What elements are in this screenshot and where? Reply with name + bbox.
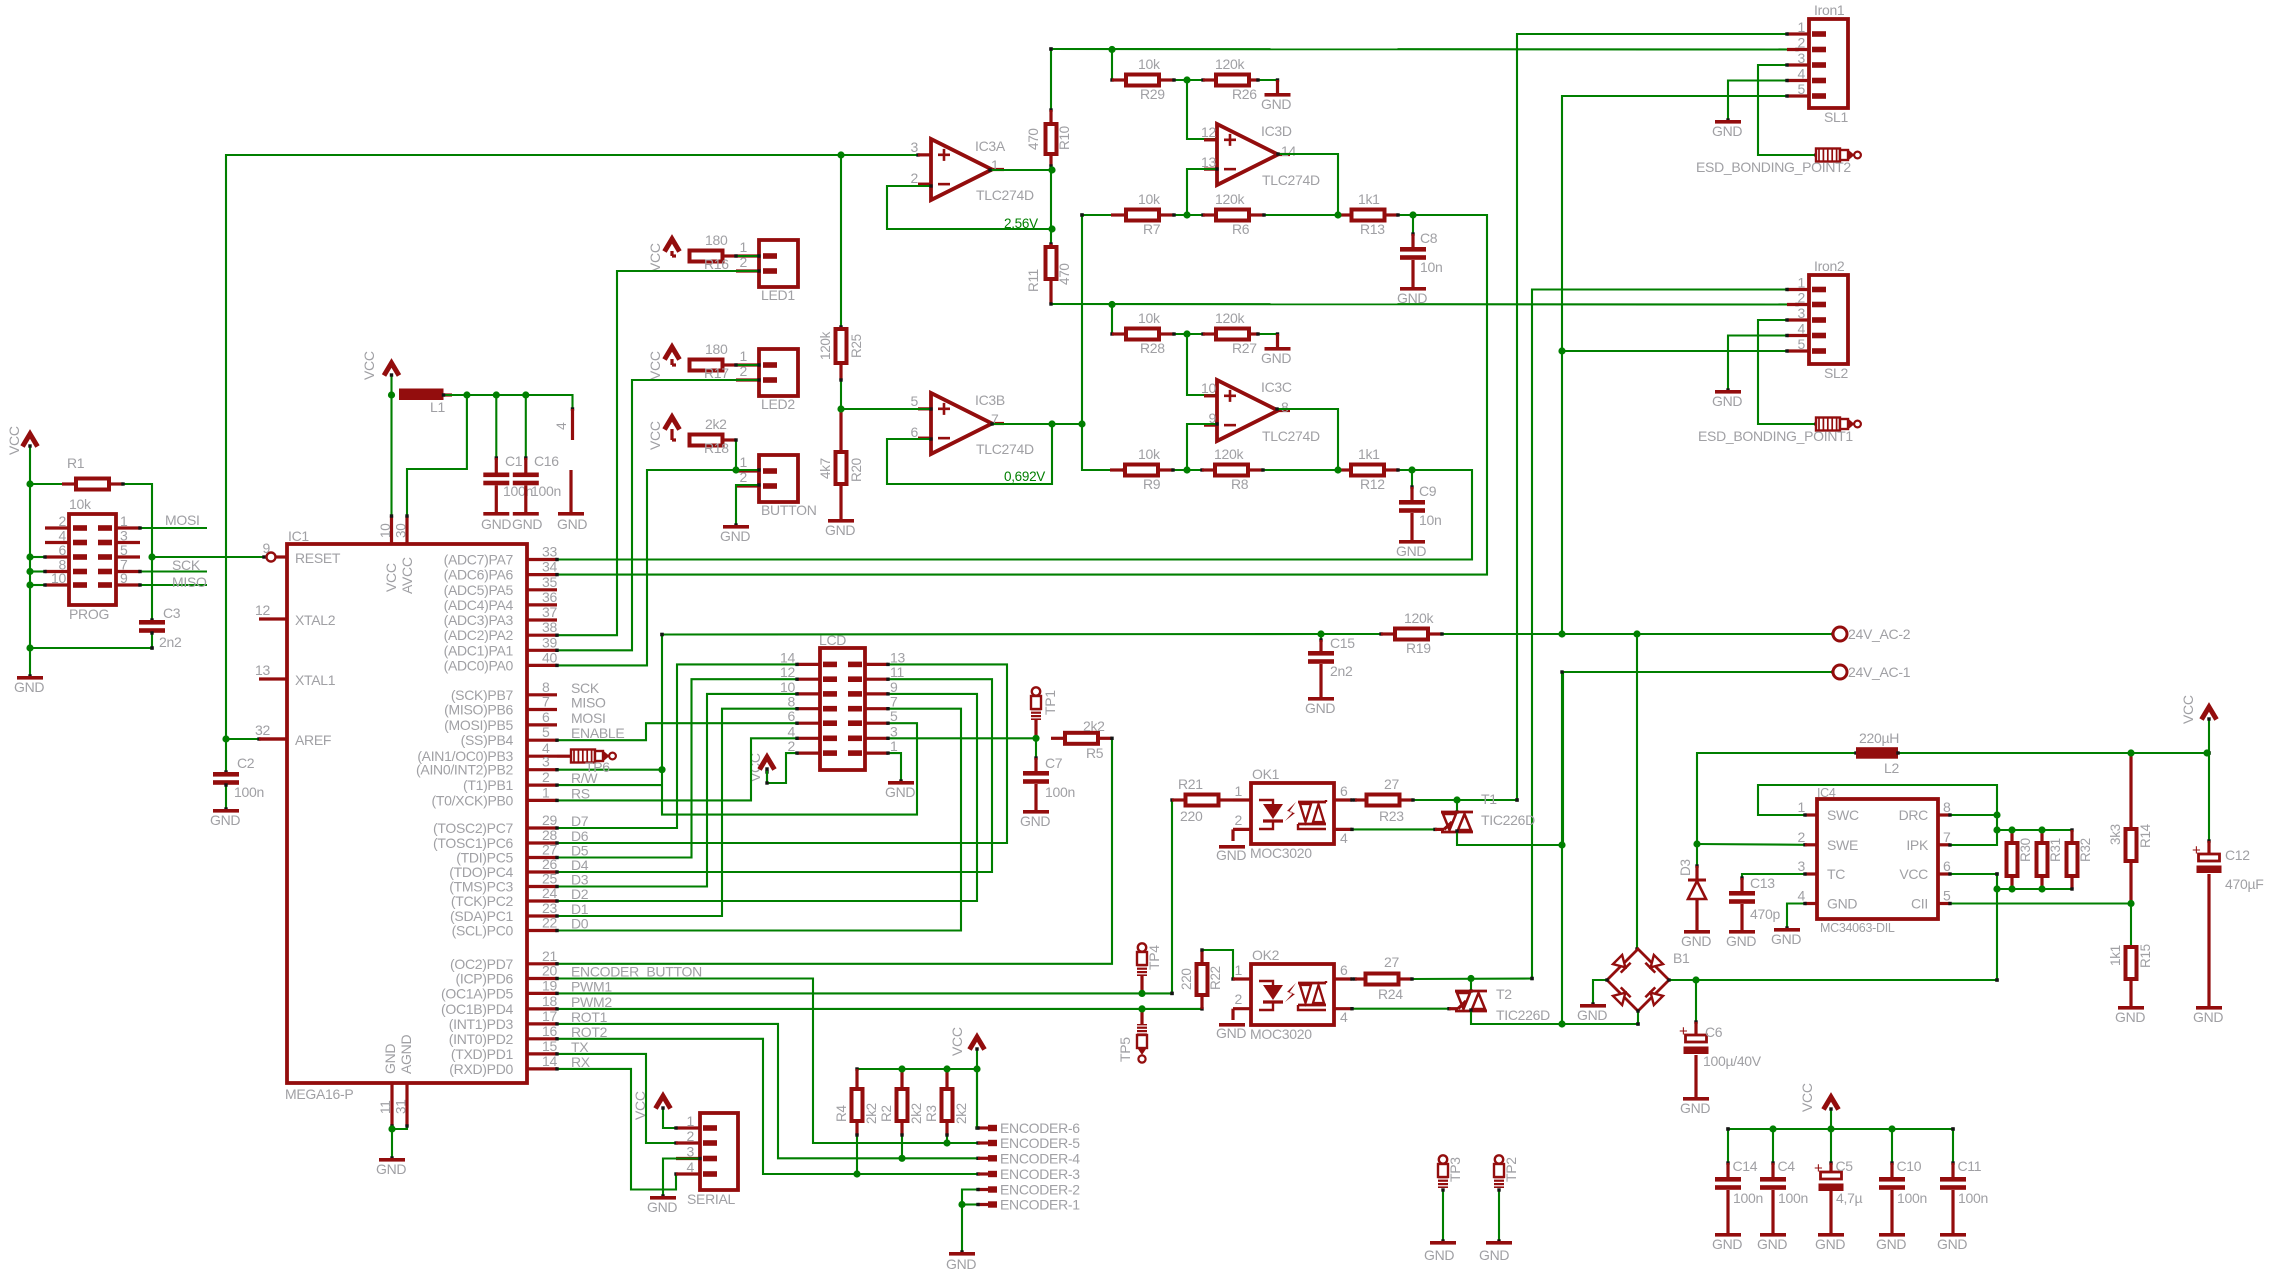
svg-text:4: 4 <box>553 422 569 430</box>
svg-text:GND: GND <box>1680 1100 1710 1116</box>
pin ENCODER-4 <box>978 1157 988 1160</box>
svg-text:C16: C16 <box>534 453 559 469</box>
capacitor C5 <box>1830 1129 1832 1163</box>
svg-text:24: 24 <box>542 885 557 901</box>
svg-text:2: 2 <box>788 738 796 754</box>
svg-text:MISO: MISO <box>571 695 606 711</box>
svg-text:10: 10 <box>1201 380 1216 396</box>
resistor R18 <box>670 429 673 440</box>
wire ROT1 to E4 <box>557 1024 978 1158</box>
svg-text:GND: GND <box>1712 1236 1742 1252</box>
svg-text:GND: GND <box>1261 350 1291 366</box>
svg-text:L1: L1 <box>430 399 445 415</box>
svg-text:4: 4 <box>1340 830 1348 846</box>
wire ENABLE to LCD pin6 <box>557 723 797 740</box>
resistor R3 <box>945 1069 948 1089</box>
wire ROT2 to E3 <box>557 1039 978 1174</box>
svg-text:100n: 100n <box>234 784 264 800</box>
svg-text:GND: GND <box>1726 933 1756 949</box>
sense resistor bus bottom / VCC pin6 <box>1950 873 1997 875</box>
svg-text:VCC: VCC <box>647 421 663 450</box>
svg-text:R28: R28 <box>1140 340 1165 356</box>
wire R24 to T2 node <box>1412 977 1532 980</box>
optocoupler OK2 MOC3020 <box>1251 964 1334 1025</box>
svg-text:470p: 470p <box>1750 906 1780 922</box>
capacitor C12 electrolytic <box>2208 753 2210 841</box>
svg-text:VCC: VCC <box>949 1027 965 1056</box>
svg-text:L2: L2 <box>1884 760 1899 776</box>
svg-text:TP2: TP2 <box>1503 1157 1519 1182</box>
capacitor C13 <box>1742 874 1805 878</box>
ground GND (C14) <box>1715 1233 1741 1237</box>
svg-text:SWE: SWE <box>1827 837 1858 853</box>
svg-text:R14: R14 <box>2138 823 2153 848</box>
svg-text:4: 4 <box>788 723 796 739</box>
svg-text:(ADC3)PA3: (ADC3)PA3 <box>444 612 514 628</box>
svg-text:ENCODER-3: ENCODER-3 <box>1000 1166 1080 1182</box>
ground GND (C10) <box>1879 1233 1905 1237</box>
ground GND (R15) <box>2118 1006 2144 1010</box>
ground GND (R20) <box>828 519 854 523</box>
svg-text:R30: R30 <box>2018 838 2033 862</box>
wire IC1 pin10 to VCC <box>390 395 392 516</box>
svg-text:9: 9 <box>120 570 128 586</box>
connector ESD_BONDING_POINT1 <box>1816 418 1840 431</box>
svg-text:IC3B: IC3B <box>975 392 1005 408</box>
wire IC3B plus input <box>841 380 931 409</box>
svg-text:4,7µ: 4,7µ <box>1836 1190 1863 1206</box>
svg-text:12: 12 <box>1201 124 1216 140</box>
wire 2.56V reference rail to AREF <box>226 155 918 739</box>
svg-text:120k: 120k <box>1215 56 1245 72</box>
ground GND (R27) <box>1258 333 1278 335</box>
svg-text:1: 1 <box>890 738 898 754</box>
svg-text:7: 7 <box>542 694 550 710</box>
svg-text:Iron2: Iron2 <box>1814 258 1845 274</box>
svg-text:TLC274D: TLC274D <box>976 187 1034 203</box>
svg-text:GND: GND <box>1479 1247 1509 1263</box>
wire R5 to PD7 OC2 <box>557 738 1112 964</box>
svg-text:2,56V: 2,56V <box>1004 216 1038 231</box>
wire R12 output node <box>557 470 1472 560</box>
svg-text:(ADC1)PA1: (ADC1)PA1 <box>444 642 514 658</box>
svg-text:TC: TC <box>1827 866 1845 882</box>
svg-text:(ICP)PD6: (ICP)PD6 <box>456 971 514 987</box>
svg-text:(T0/XCK)PB0: (T0/XCK)PB0 <box>432 792 514 808</box>
svg-text:2: 2 <box>1235 991 1243 1007</box>
svg-text:R23: R23 <box>1379 808 1404 824</box>
svg-text:MC34063-DIL: MC34063-DIL <box>1820 921 1895 935</box>
svg-text:0,692V: 0,692V <box>1004 469 1045 484</box>
svg-text:11: 11 <box>378 1101 393 1114</box>
wire SL1 pin3 to ESD jack <box>1758 65 1816 155</box>
svg-text:6: 6 <box>542 709 550 725</box>
svg-text:9: 9 <box>263 540 271 556</box>
svg-text:RESET: RESET <box>295 550 341 566</box>
IC1 left pins <box>259 617 287 620</box>
wire VCC rail right of L1 <box>444 395 573 409</box>
svg-text:1: 1 <box>1235 783 1243 799</box>
svg-text:SERIAL: SERIAL <box>687 1191 736 1207</box>
wire LCD pin13 to D6 <box>557 664 1007 843</box>
svg-text:C3: C3 <box>163 605 181 621</box>
svg-text:R3: R3 <box>924 1105 939 1122</box>
svg-text:R13: R13 <box>1360 221 1385 237</box>
svg-text:6: 6 <box>1340 962 1348 978</box>
svg-text:RX: RX <box>571 1054 591 1070</box>
svg-text:6: 6 <box>911 424 919 440</box>
wire VCC output rail <box>1898 752 2207 754</box>
ground GND (TP3) <box>1430 1241 1456 1245</box>
wire LCD pin8 to D1 <box>557 709 797 916</box>
capacitor C2 <box>225 739 227 772</box>
wire SL1 pin5 heater return <box>1562 96 1787 634</box>
wire AREF <box>226 738 259 740</box>
svg-text:(TXD)PD1: (TXD)PD1 <box>451 1046 514 1062</box>
IC1 right pins PA <box>527 558 557 561</box>
svg-text:RS: RS <box>571 785 590 801</box>
wire R22 to OK2 pin1 <box>1202 950 1233 979</box>
wire LED2 pin2 to PA1 <box>557 380 759 650</box>
svg-text:R21: R21 <box>1178 776 1203 792</box>
svg-text:GND: GND <box>1827 896 1857 912</box>
wire RESET to IC1 <box>152 556 264 558</box>
resistor R6 <box>1174 214 1203 216</box>
svg-text:2: 2 <box>542 769 550 785</box>
svg-text:IC4: IC4 <box>1817 786 1836 800</box>
connector PROG <box>69 514 116 605</box>
microcontroller IC1 MEGA16-P <box>287 544 527 1083</box>
svg-text:C4: C4 <box>1778 1158 1796 1174</box>
ground GND (C12) <box>2196 1006 2222 1010</box>
svg-text:12: 12 <box>255 602 270 618</box>
svg-text:5: 5 <box>1943 888 1951 904</box>
svg-text:11: 11 <box>890 664 904 680</box>
svg-text:C6: C6 <box>1705 1024 1723 1040</box>
wire R16 to LED1 <box>736 255 759 257</box>
ground GND (B1) <box>1580 1004 1606 1008</box>
svg-text:(SCK)PB7: (SCK)PB7 <box>451 687 514 703</box>
svg-text:GND: GND <box>1757 1236 1787 1252</box>
svg-text:GND: GND <box>2115 1009 2145 1025</box>
svg-text:32: 32 <box>255 722 270 738</box>
svg-text:2: 2 <box>1798 290 1806 306</box>
svg-text:VCC: VCC <box>2180 695 2196 724</box>
svg-text:XTAL1: XTAL1 <box>295 672 336 688</box>
svg-text:AREF: AREF <box>295 732 331 748</box>
resistor R14 <box>2129 753 2132 829</box>
svg-text:GND: GND <box>1261 96 1291 112</box>
svg-text:C8: C8 <box>1420 230 1438 246</box>
svg-text:TP5: TP5 <box>1117 1037 1133 1062</box>
svg-text:R11: R11 <box>1026 269 1041 292</box>
svg-text:MOSI: MOSI <box>571 710 606 726</box>
svg-text:PROG: PROG <box>69 606 109 622</box>
svg-text:35: 35 <box>542 574 557 590</box>
resistor R19 <box>1321 633 1381 635</box>
svg-text:R7: R7 <box>1143 221 1161 237</box>
op-amp IC3B <box>918 407 931 410</box>
wire VCC to SERIAL pin1 <box>663 1108 676 1128</box>
pin ENCODER-6 <box>978 1126 988 1129</box>
svg-text:IC3A: IC3A <box>975 138 1006 154</box>
svg-text:5: 5 <box>1798 81 1806 97</box>
svg-text:LED1: LED1 <box>761 287 795 303</box>
wire ENCODER-6 to VCC bus <box>977 1069 978 1128</box>
ground GND (IC1) <box>379 1158 405 1162</box>
svg-text:4: 4 <box>1798 66 1806 82</box>
svg-text:8: 8 <box>542 679 550 695</box>
wire PROG gnd pins <box>30 556 45 558</box>
svg-text:1: 1 <box>542 784 550 800</box>
svg-text:10n: 10n <box>1420 259 1442 275</box>
svg-text:R4: R4 <box>834 1105 849 1122</box>
inductor L1 <box>399 389 444 401</box>
wire IC1 pin30 to VCC <box>407 395 467 516</box>
wire IC4 pin4 to GND <box>1787 904 1805 929</box>
svg-text:100n: 100n <box>503 483 533 499</box>
ground GND (SL1) <box>1715 120 1741 124</box>
svg-text:2k2: 2k2 <box>909 1103 924 1124</box>
svg-text:C12: C12 <box>2225 847 2250 863</box>
svg-text:TP1: TP1 <box>1042 690 1058 715</box>
svg-text:100n: 100n <box>1958 1190 1988 1206</box>
wire IC3C output to R12 <box>1277 409 1338 470</box>
svg-text:1: 1 <box>740 348 748 364</box>
svg-text:C2: C2 <box>237 755 255 771</box>
svg-text:10k: 10k <box>1138 446 1161 462</box>
svg-text:T1: T1 <box>1481 791 1497 807</box>
resistor R25 <box>840 155 842 327</box>
svg-text:VCC: VCC <box>1899 866 1928 882</box>
wire LCD pin1 to GND <box>888 753 901 781</box>
wire B1 plus output rail <box>1669 979 1997 981</box>
svg-text:470: 470 <box>1057 263 1072 285</box>
svg-text:100n: 100n <box>1045 784 1075 800</box>
wire IC3D output to R13 <box>1278 154 1338 215</box>
wire SL1 pin1 heater drive <box>1517 34 1787 800</box>
wire R13 output node <box>557 215 1487 575</box>
svg-text:R6: R6 <box>1232 221 1250 237</box>
svg-text:ENABLE: ENABLE <box>571 725 624 741</box>
connector LCD <box>820 648 865 770</box>
svg-text:5: 5 <box>1798 336 1806 352</box>
resistor R13 <box>1338 213 1353 216</box>
ground GND (C13) <box>1729 930 1755 934</box>
svg-text:2n2: 2n2 <box>159 634 182 650</box>
svg-text:2: 2 <box>687 1128 695 1144</box>
svg-text:1: 1 <box>1798 19 1806 35</box>
svg-text:(SS)PB4: (SS)PB4 <box>461 732 514 748</box>
svg-text:GND: GND <box>1396 543 1426 559</box>
resistor R23 <box>1352 799 1355 801</box>
svg-text:10k: 10k <box>1138 310 1161 326</box>
wire SL2 pin1 heater drive <box>1532 290 1787 979</box>
wire SL1 pin4 to GND <box>1728 81 1787 121</box>
capacitor C4 <box>1772 1129 1774 1163</box>
svg-text:30: 30 <box>394 524 409 538</box>
svg-text:TIC226D: TIC226D <box>1496 1007 1550 1023</box>
junction T1 MT1 to AC1 rail <box>1561 672 1563 1024</box>
resistor R27 <box>1174 333 1203 335</box>
test point TP6 jack <box>557 755 571 758</box>
wire SCK stub <box>140 570 207 572</box>
svg-text:TP6: TP6 <box>585 759 610 775</box>
svg-text:GND: GND <box>2193 1009 2223 1025</box>
svg-text:(SCL)PC0: (SCL)PC0 <box>452 923 514 939</box>
ground GND (C6) <box>1683 1097 1709 1101</box>
svg-text:C5: C5 <box>1836 1158 1854 1174</box>
ground GND (C15) <box>1308 697 1334 701</box>
svg-text:3: 3 <box>687 1144 695 1160</box>
svg-text:IPK: IPK <box>1906 837 1929 853</box>
svg-text:GND: GND <box>1305 700 1335 716</box>
svg-text:(INT0)PD2: (INT0)PD2 <box>449 1031 514 1047</box>
svg-text:C10: C10 <box>1897 1158 1922 1174</box>
wire TX to SERIAL pin2 <box>557 1054 676 1143</box>
svg-text:13: 13 <box>890 649 905 665</box>
ground GND (BUTTON) <box>723 525 749 529</box>
svg-text:(INT1)PD3: (INT1)PD3 <box>449 1016 514 1032</box>
svg-text:4: 4 <box>1798 888 1806 904</box>
svg-text:LED2: LED2 <box>761 396 795 412</box>
svg-text:R5: R5 <box>1086 745 1104 761</box>
svg-text:470µF: 470µF <box>2225 876 2263 892</box>
svg-text:13: 13 <box>1201 154 1216 170</box>
ground GND (C7) <box>1023 810 1049 814</box>
wire ENCODER-2 ENCODER-1 to GND <box>962 1190 978 1253</box>
sense resistor bus top <box>1997 829 2072 831</box>
resistor R4 <box>855 1069 858 1089</box>
svg-text:C7: C7 <box>1045 755 1063 771</box>
svg-text:5: 5 <box>890 708 898 724</box>
svg-text:GND: GND <box>1216 847 1246 863</box>
wire IC1 ground <box>392 1126 407 1129</box>
connector ESD_BONDING_POINT2 <box>1816 149 1840 162</box>
svg-text:TP4: TP4 <box>1146 945 1162 970</box>
svg-text:100n: 100n <box>531 483 561 499</box>
svg-text:GND: GND <box>1397 290 1427 306</box>
pin ENCODER-3 <box>978 1172 988 1175</box>
svg-text:R12: R12 <box>1360 476 1385 492</box>
wire RX to SERIAL pin4 <box>557 1069 676 1190</box>
svg-text:GND: GND <box>481 516 511 532</box>
svg-text:120k: 120k <box>818 331 833 360</box>
svg-text:R22: R22 <box>1208 966 1223 990</box>
test point TP2 <box>1495 1155 1503 1163</box>
svg-text:T2: T2 <box>1496 986 1512 1002</box>
svg-text:SL1: SL1 <box>1824 109 1849 125</box>
svg-text:120k: 120k <box>1214 446 1244 462</box>
svg-text:(TCK)PC2: (TCK)PC2 <box>451 893 514 909</box>
wire OK1 pin4 to T1 gate <box>1352 828 1435 830</box>
svg-text:18: 18 <box>542 993 557 1009</box>
svg-text:1: 1 <box>1798 275 1806 291</box>
svg-text:GND: GND <box>825 522 855 538</box>
resistor R15 <box>2130 904 2132 948</box>
wire junction dots <box>26 480 33 487</box>
ground GND (LCD) <box>888 781 914 785</box>
resistor R28 <box>1111 305 1113 335</box>
svg-text:AVCC: AVCC <box>399 557 415 594</box>
svg-text:27: 27 <box>1384 954 1399 970</box>
svg-text:R17: R17 <box>704 365 729 381</box>
svg-text:GND: GND <box>1424 1247 1454 1263</box>
svg-text:220µH: 220µH <box>1859 730 1899 746</box>
ground GND (SERIAL) <box>650 1196 676 1200</box>
wire R1 to RESET net <box>123 484 152 557</box>
resistor R2 <box>900 1069 903 1089</box>
wire LCD pin3 contrast to R5 <box>888 737 1036 739</box>
capacitor C7 <box>1035 738 1037 758</box>
svg-text:R19: R19 <box>1406 640 1431 656</box>
wire sensor rail SL2 pin2 <box>1051 303 1797 306</box>
svg-text:5: 5 <box>542 724 550 740</box>
svg-text:3: 3 <box>1798 305 1806 321</box>
svg-text:180: 180 <box>705 232 728 248</box>
svg-text:2: 2 <box>740 469 748 485</box>
wire sensor rail SL1 pin2 <box>1051 48 1797 51</box>
svg-text:GND: GND <box>720 528 750 544</box>
svg-text:10k: 10k <box>1138 56 1161 72</box>
resistor R21 <box>1171 800 1173 993</box>
svg-text:(ADC7)PA7: (ADC7)PA7 <box>444 552 514 568</box>
resistor R11 <box>1049 244 1052 248</box>
svg-text:1: 1 <box>687 1113 695 1129</box>
svg-text:VCC: VCC <box>383 563 399 592</box>
svg-text:GND: GND <box>1216 1025 1246 1041</box>
svg-text:34: 34 <box>542 559 557 575</box>
svg-text:TLC274D: TLC274D <box>1262 172 1320 188</box>
wire BUTTON pin2 to GND <box>736 485 759 525</box>
svg-text:GND: GND <box>1712 393 1742 409</box>
svg-text:4: 4 <box>1798 321 1806 337</box>
svg-text:ENCODER-5: ENCODER-5 <box>1000 1135 1080 1151</box>
svg-text:SWC: SWC <box>1827 807 1859 823</box>
ground GND (C11) <box>1940 1233 1966 1237</box>
ground GND (C5) <box>1818 1233 1844 1237</box>
ground GND (R26) <box>1258 79 1278 81</box>
svg-text:GND: GND <box>1020 813 1050 829</box>
svg-text:R32: R32 <box>2078 838 2093 862</box>
svg-text:6: 6 <box>1943 858 1951 874</box>
pad 24V_AC-1 <box>1833 665 1847 679</box>
svg-text:1k1: 1k1 <box>1358 446 1380 462</box>
op-amp IC3D <box>1187 80 1217 139</box>
svg-text:37: 37 <box>542 604 557 620</box>
svg-text:R20: R20 <box>849 458 864 482</box>
svg-text:ESD_BONDING_POINT1: ESD_BONDING_POINT1 <box>1698 428 1853 444</box>
svg-text:(OC1B)PD4: (OC1B)PD4 <box>441 1001 513 1017</box>
wire R17 to LED2 <box>736 364 759 366</box>
svg-text:20: 20 <box>542 963 557 979</box>
wire zero-cross line <box>662 633 1321 636</box>
wire B1 bottom to AC1 rail <box>1637 1011 1639 1024</box>
svg-text:VCC: VCC <box>6 426 22 455</box>
wire 24V_AC-2 line <box>1442 633 1833 635</box>
svg-text:29: 29 <box>542 812 557 828</box>
resistor R9 <box>1110 468 1125 471</box>
svg-text:GND: GND <box>14 679 44 695</box>
op-amp IC3A <box>918 153 931 156</box>
resistor R12 <box>1338 468 1352 471</box>
svg-text:38: 38 <box>542 619 557 635</box>
wire MISO stub <box>140 584 207 586</box>
op-amp IC3C <box>1187 334 1217 395</box>
capacitor C6 electrolytic <box>1695 980 1697 1022</box>
connector SL1 (Iron1) <box>1809 19 1848 108</box>
svg-text:(T1)PB1: (T1)PB1 <box>463 777 514 793</box>
